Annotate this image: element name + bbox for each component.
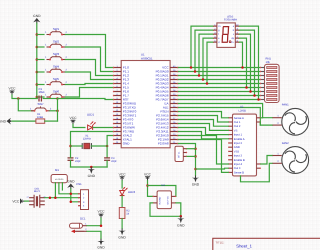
svg-text:SW5: SW5 (53, 77, 60, 81)
node M2 pin1 (194, 147, 197, 150)
wire (bus row P0.0) (178, 71, 260, 73)
svg-text:BUZ1: BUZ1 (34, 190, 41, 193)
node DC1 vcc (100, 224, 103, 227)
svg-text:Out 1: Out 1 (234, 121, 241, 124)
wire (M2 pin3) (187, 155, 196, 157)
wire (SW7 to RST node) (50, 110, 58, 112)
wire (SW2 to P1.1) (66, 47, 114, 72)
capacitor C2 (68, 157, 82, 163)
wire (P2.2 to U2 pin12) (178, 136, 228, 165)
svg-text:GND: GND (33, 14, 41, 18)
wire (display right pin 5 loop) (239, 42, 242, 67)
wire (R1 to RST node) (45, 120, 58, 122)
wire (RST vertical) (57, 99, 59, 122)
ground (U3) (177, 216, 185, 227)
node SW7 right junction (56, 110, 59, 113)
wire (crystal ground rail) (71, 166, 108, 168)
node crystal right (106, 145, 109, 148)
wire (LED1 to P3.5 pin) (93, 127, 113, 129)
wire (display left pin 4 loop) (203, 38, 213, 79)
power VCC (reset) (9, 87, 17, 96)
node display-right 4 (245, 86, 248, 89)
svg-text:uA78L05: uA78L05 (55, 178, 64, 181)
wire (SW6 to P1.5) (66, 88, 114, 98)
svg-text:VCC: VCC (12, 199, 20, 203)
wire (SW3 to P1.2) (66, 60, 114, 76)
svg-text:VCC: VCC (70, 116, 78, 120)
ground (reset pulldown) (0, 118, 12, 125)
title block (213, 238, 320, 250)
svg-text:M1: M1 (55, 168, 59, 172)
svg-text:LED1: LED1 (87, 113, 94, 117)
wire (SW1 to P1.0) (66, 35, 114, 68)
wire (gnd tap to U2 pin13) (196, 167, 229, 170)
svg-text:SW4: SW4 (53, 64, 60, 68)
wire (bus row P0.6) (178, 95, 260, 97)
svg-text:F/2510ABH: F/2510ABH (224, 18, 237, 21)
node SW6 junction (36, 96, 39, 99)
wire (XTAL2 pin to left leg) (71, 132, 114, 145)
svg-text:IN GND: IN GND (158, 196, 161, 204)
motor FAN2 (273, 141, 309, 174)
svg-text:TITLE:: TITLE: (215, 241, 224, 245)
svg-text:VSS: VSS (234, 150, 240, 153)
wire (U3 bottom loop) (150, 203, 181, 216)
motor FAN1 (273, 103, 309, 136)
svg-text:VS: VS (234, 129, 238, 132)
svg-text:L293D: L293D (239, 110, 247, 113)
capacitor C1 (39, 87, 46, 102)
wire (R2 to GND) (121, 219, 123, 229)
wire (display right pin 3 loop) (239, 34, 250, 91)
wire (U2 bottom loop to FAN2 pin2) (241, 163, 273, 182)
LED LED3 (120, 188, 136, 196)
switch SW4 (45, 64, 67, 73)
svg-text:GND: GND (123, 142, 131, 146)
svg-text:GND: GND (192, 183, 200, 187)
svg-text:GND: GND (0, 119, 7, 123)
wire (C2 legs) (70, 148, 72, 168)
wire (bus row P0.2) (178, 79, 260, 81)
wire (SW3 left) (37, 59, 44, 61)
power VCC (U3) (144, 172, 152, 181)
node VCC/C1 junction (17, 97, 20, 100)
node SW2 junction (36, 46, 39, 49)
wire (MCU to U2 input 2) (178, 116, 228, 123)
capacitor C3 (104, 157, 117, 163)
svg-text:Sense A: Sense A (234, 117, 244, 120)
node SW3 junction (36, 58, 39, 61)
transistor M1 (51, 168, 67, 183)
svg-text:GND: GND (97, 245, 105, 249)
svg-text:BT x1: BT x1 (178, 151, 181, 158)
svg-text:CN1: CN1 (76, 183, 82, 186)
node RST junction top (56, 97, 59, 100)
node SW1 junction (36, 33, 39, 36)
ground (crystal) (88, 167, 96, 178)
svg-text:GND: GND (67, 180, 75, 184)
wire (MCU to U2 input 5) (178, 128, 228, 135)
power VCC (LED3) (119, 172, 127, 181)
wire (display left pin 1 loop) (191, 26, 213, 67)
svg-text:Input 2: Input 2 (234, 142, 243, 145)
power VCC (LED1) (70, 116, 78, 125)
svg-text:10uF: 10uF (39, 90, 46, 94)
svg-text:Input 4: Input 4 (234, 163, 243, 166)
svg-text:12MHz: 12MHz (83, 138, 92, 141)
svg-text:FAN2: FAN2 (282, 141, 289, 145)
wire (ALE row to FAN1 pin2) (178, 108, 272, 126)
svg-text:GND: GND (88, 174, 96, 178)
wire (P2.1 to U2 pin14) (178, 140, 228, 173)
svg-text:Out 3: Out 3 (234, 167, 241, 170)
node display-left 4 (202, 78, 205, 81)
node U3 gnd (180, 215, 183, 218)
wire (VCC to DS1) (25, 200, 30, 202)
svg-text:VCC: VCC (119, 172, 127, 176)
wire (display left pin 3 loop) (199, 34, 213, 75)
wire (bus row P0.4) (178, 87, 260, 89)
ground (DC1) (97, 239, 105, 250)
wire (SW6 left) (37, 96, 44, 98)
wire (GND to CN1 pin3) (71, 189, 79, 202)
op-amp U3 (153, 184, 176, 209)
wire (XTAL1 pin leg) (107, 136, 113, 158)
svg-text:SW6: SW6 (53, 89, 60, 93)
node SW5 junction (36, 83, 39, 86)
node display-left 2 (194, 70, 197, 73)
switch SW1 (45, 27, 67, 36)
svg-text:Enable A: Enable A (234, 138, 245, 141)
wire (M2 pin1) (187, 148, 196, 150)
wire (RST node to RST pin) (58, 99, 114, 100)
wire (crystal left lead) (71, 145, 83, 147)
switch SW3 (45, 52, 67, 61)
node M1 leg1 (54, 196, 57, 199)
node display-left 1 (190, 66, 193, 69)
svg-text:SW3: SW3 (53, 52, 60, 56)
node U3 vcc (146, 184, 149, 187)
svg-text:LED3: LED3 (128, 190, 135, 194)
wire (P2.0 to gnd rail) (178, 144, 195, 176)
node display-right 2 (253, 94, 256, 97)
svg-text:P2.0/A8: P2.0/A8 (158, 142, 169, 146)
7-segment display LED2 (213, 15, 240, 47)
svg-text:SW1: SW1 (53, 27, 60, 31)
svg-text:OUT VS: OUT VS (167, 196, 170, 205)
switch SW7 (30, 102, 52, 112)
connector CN1 (76, 183, 88, 209)
svg-text:Enable B: Enable B (234, 159, 245, 162)
resistor network RN1 (260, 57, 279, 102)
wire (M1 leg3) (61, 183, 63, 190)
switch SW2 (45, 39, 67, 48)
ground (U2 area) (192, 176, 200, 187)
svg-text:FAN1: FAN1 (282, 103, 289, 107)
wire (VCC to LED3) (121, 181, 123, 188)
resistor R1 (36, 113, 45, 123)
wire (MCU to U2 input 3) (178, 120, 228, 127)
switch SW5 (45, 77, 67, 86)
wire (SW2 left) (37, 46, 44, 48)
wire (display left pin 5 loop) (207, 42, 213, 83)
node crystal ground (90, 166, 93, 169)
node display-left 5 (206, 82, 209, 85)
motor DC1 (70, 217, 88, 233)
wire (MCU to U2 input 6) (178, 132, 228, 139)
wire (bus row P0.1) (178, 75, 260, 77)
svg-text:22pF: 22pF (111, 160, 117, 163)
svg-text:U2: U2 (240, 106, 244, 109)
wire (C3 bottom leg) (106, 161, 108, 167)
wire (display left pin 2 loop) (195, 30, 213, 71)
svg-text:VCC: VCC (144, 172, 152, 176)
wire (bus row P0.5) (178, 91, 260, 93)
wire (DC1 pin2 to GND) (87, 231, 101, 239)
node SW4 junction (36, 71, 39, 74)
node crystal left (69, 145, 72, 148)
wire (VCC to U3) (148, 181, 153, 197)
svg-text:DC1: DC1 (80, 217, 86, 220)
node display-right 1 (257, 98, 260, 101)
op-amp U1 AT89C51 microcontroller (113, 53, 179, 148)
wire (U2 right stub link 1) (261, 117, 263, 119)
LED LED1 (87, 113, 95, 130)
switch SW6 (45, 89, 67, 98)
wire (C1 to RST node) (43, 98, 57, 100)
svg-text:GND: GND (177, 223, 185, 227)
buzzer DS1 (27, 187, 47, 207)
wire (switch common column) (36, 23, 38, 97)
wire (SW5 to P1.4) (66, 84, 114, 85)
node M2 pin3 (194, 155, 197, 158)
wire (U2 right stub link 2) (259, 122, 261, 125)
wire (VCC to DC1 pin1) (87, 218, 101, 226)
wire (bus row P0.3) (178, 83, 260, 85)
wire (MCU to U2 input 4) (178, 124, 228, 131)
wire (M1 leg2 to CN1 pin1) (59, 183, 78, 194)
svg-text:VCC: VCC (9, 87, 17, 91)
wire (SW4 to P1.3) (66, 72, 114, 80)
node U2 gnd tap (194, 168, 197, 171)
ground (LED3) (118, 229, 126, 240)
wire (DS1 to CN1 pin2) (45, 197, 79, 199)
svg-text:GND: GND (234, 146, 240, 149)
transistor M2 (small package) (175, 146, 187, 161)
wire (VCC to LED1) (73, 124, 85, 127)
svg-text:AT89C51: AT89C51 (141, 56, 153, 60)
node GND cross1 (70, 193, 73, 196)
wire (bus row P0.7) (178, 99, 260, 101)
wire (M1 leg1) (54, 183, 56, 198)
wire (SW4 left) (37, 71, 44, 73)
svg-text:SW2: SW2 (53, 39, 60, 43)
node GND cross2 (70, 201, 73, 204)
wire (LED3 to R2) (121, 196, 123, 207)
wire (VCC branch down to SW7) (18, 99, 33, 111)
svg-text:Input 1: Input 1 (234, 134, 243, 137)
ground (M1) (67, 180, 75, 189)
svg-text:Out 2: Out 2 (234, 125, 241, 128)
wire (VCC to U3 right pin) (148, 186, 176, 197)
wire (bus row VCC) (178, 67, 260, 69)
svg-text:10k: 10k (266, 61, 271, 64)
wire (SW1 left) (37, 34, 44, 36)
svg-text:22pF: 22pF (75, 160, 81, 163)
svg-text:GND: GND (118, 236, 126, 240)
wire (display right pin 2 loop) (239, 30, 254, 95)
wire (VCC to C1) (12, 95, 37, 99)
resistor R2 (119, 208, 130, 219)
wire (SW5 left) (37, 84, 44, 86)
svg-text:U3: U3 (161, 184, 165, 187)
svg-text:SW7: SW7 (37, 102, 44, 106)
svg-text:Sense B: Sense B (234, 171, 244, 174)
svg-text:VCC: VCC (98, 210, 106, 214)
op-amp U2 L293D motor driver (228, 106, 261, 176)
wire (crystal right lead) (91, 145, 107, 147)
wire (EA row to FAN1 pin1) (178, 104, 272, 118)
wire (U2 out to FAN2 pin1) (261, 156, 273, 165)
power VCC (DS1) (12, 199, 24, 204)
svg-text:10kΩ: 10kΩ (37, 116, 43, 119)
wire (MCU to U2 input 1) (178, 112, 228, 118)
wire (GND to R1) (12, 120, 36, 122)
svg-text:Sheet_1: Sheet_1 (236, 244, 252, 249)
ground (switch column) (33, 14, 41, 24)
power VCC (DC1) (98, 210, 106, 219)
crystal X1 (82, 134, 91, 149)
node display-right 3 (249, 90, 252, 93)
node display-right 5 (241, 66, 244, 69)
node DS1 out (49, 196, 52, 199)
svg-text:Input 3: Input 3 (234, 155, 243, 158)
wire (display right pin 1 loop) (239, 26, 258, 99)
wire (display right pin 4 loop) (239, 38, 246, 87)
node display-left 3 (198, 74, 201, 77)
